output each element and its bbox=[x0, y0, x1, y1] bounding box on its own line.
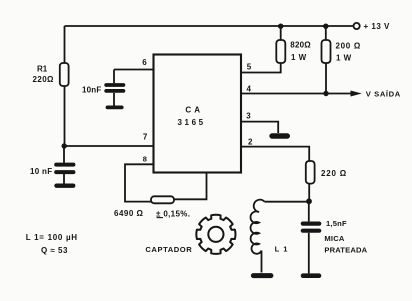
svg-text:MICA: MICA bbox=[324, 234, 345, 243]
wire node to L1 and inductor L1 coil bbox=[251, 200, 309, 273]
wire pin 7 bbox=[64, 145, 153, 147]
label 200Ω 1W bbox=[336, 42, 361, 63]
label R1 220Ω bbox=[33, 65, 55, 84]
wire pin 8 loop left bbox=[125, 164, 154, 201]
wire R1 bottom lead to node bbox=[64, 86, 66, 146]
ground bar pin 3 bbox=[272, 133, 287, 138]
svg-text:10 nF: 10 nF bbox=[30, 167, 52, 176]
resistor 820Ω 1W bbox=[276, 40, 285, 63]
wire pin 3 to ground bbox=[241, 122, 278, 133]
svg-text:7: 7 bbox=[143, 133, 148, 142]
svg-text:10nF: 10nF bbox=[82, 85, 101, 94]
svg-text:3: 3 bbox=[246, 111, 251, 120]
label 820Ω 1W bbox=[290, 41, 311, 63]
wire pin 2 to 220 resistor bbox=[241, 147, 309, 161]
wire C3 bottom lead bbox=[308, 233, 310, 274]
wire 820 top lead bbox=[280, 26, 282, 40]
svg-text:Q ≈ 53: Q ≈ 53 bbox=[41, 246, 68, 255]
svg-text:PRATEADA: PRATEADA bbox=[324, 246, 367, 255]
svg-text:CAPTADOR: CAPTADOR bbox=[145, 245, 192, 254]
svg-text:8: 8 bbox=[143, 154, 147, 163]
resistor R1 bbox=[60, 63, 69, 86]
wire R1 top lead from rail bbox=[64, 26, 66, 63]
pickup gear symbol (captador) bbox=[196, 215, 235, 254]
svg-text:R1: R1 bbox=[37, 65, 48, 74]
node dot 200/pin4 bbox=[323, 91, 328, 96]
svg-text:± 0,15%.: ± 0,15%. bbox=[156, 209, 190, 218]
ground bar under C2 bbox=[57, 183, 74, 187]
wire 200 bottom lead to pin4 wire bbox=[325, 63, 327, 94]
wire pin 4 output bbox=[241, 93, 352, 95]
svg-text:L 1= 100 µH: L 1= 100 µH bbox=[26, 233, 78, 242]
capacitor C2 10nF plates bbox=[56, 165, 73, 173]
wire 220 bottom lead bbox=[308, 184, 310, 201]
op-amp IC U1 CA3165 body bbox=[154, 55, 242, 173]
wire C1 bottom lead bbox=[113, 93, 115, 106]
svg-text:V SAÍDA: V SAÍDA bbox=[366, 90, 401, 99]
svg-text:5: 5 bbox=[247, 62, 252, 71]
svg-text:+ 13 V: + 13 V bbox=[364, 22, 391, 31]
resistor 200Ω 1W bbox=[322, 40, 331, 63]
svg-text:3165: 3165 bbox=[178, 118, 206, 127]
wire pin 5 to 820 resistor bbox=[241, 63, 281, 73]
capacitor C3 1,5nF plates bbox=[303, 224, 319, 231]
wire C3 top lead bbox=[308, 201, 310, 221]
svg-text:2: 2 bbox=[248, 138, 253, 147]
svg-text:1,5nF: 1,5nF bbox=[326, 219, 347, 228]
wire 6490 right lead up to IC bottom pin bbox=[174, 173, 207, 200]
svg-text:200 Ω: 200 Ω bbox=[336, 42, 361, 51]
svg-text:1 W: 1 W bbox=[291, 53, 307, 62]
svg-text:L 1: L 1 bbox=[275, 245, 289, 254]
svg-text:220 Ω: 220 Ω bbox=[321, 169, 347, 178]
wire top supply rail bbox=[65, 25, 354, 27]
svg-text:C A: C A bbox=[185, 105, 200, 114]
label 1,5nF MICA PRATEADA bbox=[324, 219, 367, 255]
wire pin 6 bbox=[114, 69, 154, 71]
node junction R1 / pin7 / C2 bbox=[61, 143, 66, 148]
wire C2 top lead bbox=[63, 146, 65, 163]
label ± 0,15% bbox=[156, 209, 190, 218]
ground bar under C1 bbox=[108, 106, 122, 110]
wire C2 bottom lead bbox=[63, 174, 65, 184]
node dot L1 / C3 / 220 bbox=[306, 198, 312, 204]
node dot 200/rail bbox=[323, 24, 328, 29]
wire 200 top lead bbox=[325, 26, 327, 40]
svg-text:220Ω: 220Ω bbox=[33, 75, 55, 84]
arrow head V SAIDA bbox=[351, 91, 362, 97]
resistor 6490Ω bbox=[151, 196, 174, 203]
ground bar under L1 bbox=[253, 273, 271, 278]
svg-text:6490 Ω: 6490 Ω bbox=[114, 209, 144, 218]
+13V terminal circle bbox=[354, 23, 360, 29]
node dot 820/rail bbox=[278, 24, 283, 29]
capacitor C1 10nF plates bbox=[106, 85, 123, 91]
resistor 220Ω bbox=[306, 161, 315, 184]
ground bar under C3 bbox=[303, 273, 319, 278]
svg-text:1 W: 1 W bbox=[336, 54, 352, 63]
svg-text:4: 4 bbox=[247, 85, 252, 94]
wire C1 top lead bbox=[113, 70, 115, 84]
svg-text:820Ω: 820Ω bbox=[290, 41, 311, 50]
svg-text:6: 6 bbox=[142, 58, 147, 67]
